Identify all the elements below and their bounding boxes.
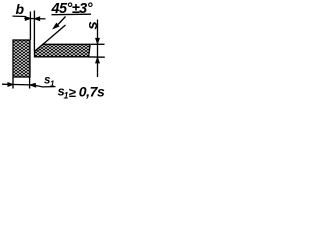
svg-text:0,7s: 0,7s bbox=[79, 83, 105, 99]
svg-text:1: 1 bbox=[50, 79, 55, 88]
svg-text:b: b bbox=[16, 1, 25, 17]
svg-text:s: s bbox=[84, 21, 101, 29]
svg-text:≥: ≥ bbox=[69, 85, 76, 100]
svg-text:1: 1 bbox=[64, 90, 69, 100]
